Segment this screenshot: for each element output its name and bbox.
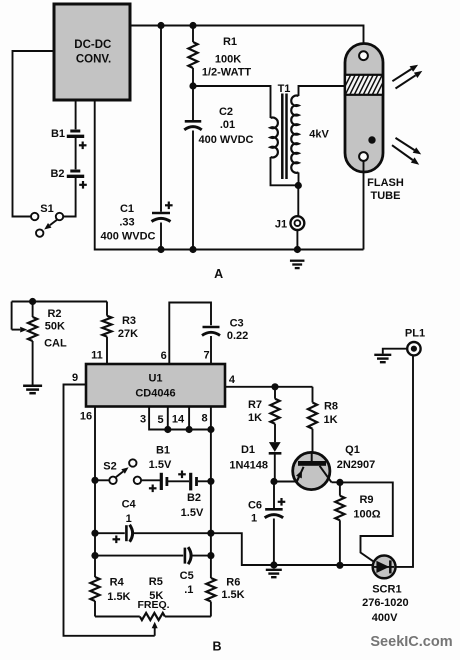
resistor R6	[206, 578, 215, 602]
ground	[290, 260, 305, 262]
svg-text:R8: R8	[324, 401, 338, 413]
wire	[95, 532, 125, 534]
wire	[210, 430, 212, 556]
svg-text:SCR1: SCR1	[372, 584, 401, 596]
wire	[274, 387, 276, 442]
switch S2	[109, 477, 116, 484]
resistor R1	[188, 42, 197, 68]
svg-text:50K: 50K	[45, 321, 65, 333]
wire	[396, 356, 414, 567]
wire	[64, 385, 155, 636]
node junction	[91, 552, 98, 559]
svg-text:DC-DC: DC-DC	[74, 39, 111, 51]
svg-text:R2: R2	[47, 308, 61, 320]
svg-text:TUBE: TUBE	[371, 190, 401, 202]
svg-text:400V: 400V	[372, 612, 398, 624]
svg-text:B1: B1	[51, 128, 65, 140]
node junction	[295, 182, 302, 189]
node junction	[189, 22, 196, 29]
svg-text:14: 14	[172, 414, 185, 426]
wire	[160, 26, 162, 212]
switch S1	[31, 213, 38, 220]
wire	[95, 100, 364, 250]
light arrow	[392, 69, 411, 81]
capacitor C2	[185, 120, 202, 123]
wire	[149, 407, 211, 430]
battery B2	[70, 170, 80, 173]
wire	[198, 480, 211, 482]
capacitor C6	[265, 508, 283, 511]
jack J1	[291, 216, 305, 230]
wire	[383, 349, 407, 354]
light arrow	[396, 75, 416, 88]
wire	[210, 556, 212, 617]
resistor R7	[270, 399, 279, 424]
svg-text:100Ω: 100Ω	[353, 508, 380, 520]
wire	[75, 100, 77, 129]
wire	[95, 555, 183, 557]
wire	[271, 157, 299, 185]
svg-text:8: 8	[201, 413, 207, 425]
svg-text:T1: T1	[278, 83, 291, 95]
wire	[273, 482, 275, 566]
node junction	[189, 246, 196, 253]
node junction	[91, 477, 98, 484]
svg-text:4: 4	[229, 374, 236, 386]
svg-text:R1: R1	[223, 36, 237, 48]
node junction	[294, 246, 301, 253]
svg-text:C6: C6	[248, 500, 262, 512]
wire	[95, 616, 211, 618]
svg-text:B2: B2	[187, 492, 201, 504]
wire	[312, 387, 314, 453]
svg-text:CONV.: CONV.	[76, 54, 111, 66]
svg-text:.01: .01	[220, 119, 235, 131]
svg-text:C3: C3	[230, 317, 244, 329]
wire	[296, 230, 298, 250]
wire	[141, 479, 160, 481]
flash tube body	[345, 44, 383, 173]
diode D1	[269, 442, 281, 452]
svg-text:5: 5	[157, 414, 163, 426]
svg-text:4kV: 4kV	[309, 129, 329, 141]
svg-text:1: 1	[251, 512, 257, 524]
svg-text:C1: C1	[120, 203, 134, 215]
plug PL1	[407, 342, 420, 355]
svg-text:B1: B1	[156, 445, 170, 457]
ground	[266, 569, 282, 571]
wire	[299, 86, 346, 96]
wire	[297, 186, 299, 216]
svg-text:A: A	[214, 267, 223, 281]
op-amp U1 CD4046	[86, 364, 225, 407]
svg-text:9: 9	[72, 372, 78, 384]
svg-text:C4: C4	[122, 499, 137, 511]
svg-text:R6: R6	[226, 577, 240, 589]
node junction	[207, 478, 214, 485]
wire	[274, 481, 296, 483]
svg-text:R9: R9	[359, 494, 373, 506]
wire	[95, 479, 109, 481]
wire	[192, 68, 194, 120]
wire	[13, 51, 55, 217]
battery B1	[70, 130, 80, 133]
svg-text:400 WVDC: 400 WVDC	[198, 134, 253, 146]
capacitor C5	[184, 548, 187, 564]
svg-text:CAL: CAL	[44, 338, 67, 350]
svg-text:11: 11	[91, 350, 103, 362]
node junction	[207, 530, 214, 537]
svg-text:R5: R5	[149, 576, 163, 588]
wire	[332, 481, 340, 483]
node junction	[336, 479, 343, 486]
svg-text:1K: 1K	[248, 412, 262, 424]
svg-text:CD4046: CD4046	[135, 388, 175, 400]
svg-text:1.5K: 1.5K	[107, 591, 130, 603]
ground	[374, 354, 391, 356]
svg-text:1.5V: 1.5V	[181, 507, 204, 519]
node junction	[157, 246, 164, 253]
resistor R4	[90, 577, 99, 601]
resistor R3	[102, 316, 111, 337]
svg-text:0.22: 0.22	[227, 330, 248, 342]
svg-text:1/2-WATT: 1/2-WATT	[202, 67, 252, 79]
node junction	[164, 426, 171, 433]
node junction	[270, 478, 277, 485]
battery B1	[160, 473, 163, 490]
svg-text:1.5V: 1.5V	[149, 459, 172, 471]
node junction	[207, 552, 214, 559]
wire	[363, 161, 365, 250]
light arrow	[396, 138, 415, 150]
wire	[32, 302, 34, 385]
transistor Q1	[293, 452, 330, 489]
capacitor C4	[125, 525, 128, 541]
node junction	[207, 426, 214, 433]
node junction	[186, 426, 193, 433]
wire	[192, 26, 194, 43]
wire	[193, 86, 271, 118]
svg-text:3: 3	[140, 414, 146, 426]
svg-text:276-1020: 276-1020	[362, 597, 409, 609]
svg-text:2N2907: 2N2907	[337, 459, 376, 471]
potentiometer R5	[140, 613, 165, 620]
light arrow	[392, 145, 413, 160]
svg-text:B: B	[212, 640, 221, 654]
wire	[63, 178, 75, 217]
transformer T1 primary winding	[271, 118, 278, 158]
transformer T1 secondary winding	[291, 96, 298, 173]
wire	[11, 302, 13, 330]
svg-text:U1: U1	[148, 373, 162, 385]
svg-text:FLASH: FLASH	[367, 177, 404, 189]
node junction	[29, 298, 36, 305]
node junction	[271, 383, 278, 390]
node junction	[189, 82, 196, 89]
svg-text:7: 7	[203, 350, 209, 362]
svg-text:100K: 100K	[215, 54, 241, 66]
node junction	[270, 561, 277, 568]
svg-text:16: 16	[80, 411, 92, 423]
wire	[340, 482, 393, 561]
flash tube top electrode	[359, 51, 368, 60]
wire	[192, 555, 211, 557]
svg-text:R3: R3	[122, 315, 136, 327]
node junction	[157, 22, 164, 29]
node junction	[91, 530, 98, 537]
svg-text:6: 6	[161, 350, 167, 362]
svg-text:27K: 27K	[118, 328, 138, 340]
wire	[192, 131, 194, 250]
wire	[225, 386, 313, 388]
ground	[23, 385, 42, 388]
wire	[94, 556, 96, 617]
resistor R8	[308, 403, 317, 429]
svg-text:1.5K: 1.5K	[221, 589, 244, 601]
thyristor SCR1	[373, 556, 396, 579]
battery B2	[189, 473, 192, 491]
svg-text:R7: R7	[248, 399, 262, 411]
svg-text:.1: .1	[184, 584, 193, 596]
transformer T1 core	[281, 94, 284, 180]
resistor R9	[335, 496, 344, 520]
wire	[211, 533, 373, 565]
wire	[160, 223, 162, 250]
wire	[169, 303, 211, 364]
svg-text:FREQ.: FREQ.	[137, 599, 169, 611]
capacitor C3	[203, 326, 220, 328]
svg-text:1K: 1K	[323, 414, 337, 426]
wire	[75, 138, 77, 169]
svg-text:Q1: Q1	[345, 444, 360, 456]
capacitor C1	[152, 212, 170, 215]
svg-text:1N4148: 1N4148	[229, 460, 268, 472]
flash tube trigger band	[345, 75, 383, 95]
wire	[106, 302, 108, 364]
potentiometer R5 wiper	[154, 628, 156, 636]
svg-text:R4: R4	[110, 577, 125, 589]
potentiometer R2	[28, 317, 37, 341]
svg-text:J1: J1	[275, 219, 287, 231]
svg-text:S2: S2	[103, 460, 116, 472]
svg-text:1: 1	[126, 513, 132, 525]
wire	[12, 301, 107, 303]
flash tube bottom electrode	[359, 152, 368, 161]
wire	[274, 453, 276, 481]
wire	[339, 482, 341, 565]
svg-text:SeekIC.com: SeekIC.com	[370, 634, 452, 650]
node junction	[336, 562, 343, 569]
svg-text:D1: D1	[241, 444, 255, 456]
svg-text:C5: C5	[180, 570, 194, 582]
wire	[210, 336, 212, 364]
wire	[94, 407, 96, 556]
wire	[298, 172, 300, 185]
flash tube dot	[368, 136, 375, 143]
svg-text:S1: S1	[40, 203, 53, 215]
svg-text:C2: C2	[219, 106, 233, 118]
svg-text:.33: .33	[119, 217, 134, 229]
svg-text:B2: B2	[50, 168, 64, 180]
potentiometer R2 wiper	[12, 329, 21, 331]
wire	[134, 532, 211, 534]
wire	[130, 26, 364, 52]
wire	[168, 480, 189, 482]
DC-DC converter module	[54, 4, 130, 100]
svg-text:PL1: PL1	[405, 327, 425, 339]
svg-text:400 WVDC: 400 WVDC	[100, 231, 155, 243]
